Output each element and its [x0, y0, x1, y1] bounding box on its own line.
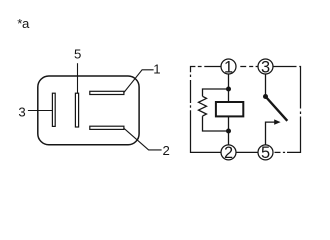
schematic boundary, bottom edge — [236, 151, 285, 153]
svg-text:5: 5 — [74, 47, 81, 62]
leader line for pin 1 — [124, 70, 154, 93]
pin slot 5 (center vertical terminal) — [75, 93, 78, 127]
pin slot 1 (upper horizontal terminal) — [90, 91, 124, 94]
svg-text:1: 1 — [153, 62, 160, 77]
switch pivot node — [263, 94, 268, 99]
schematic boundary, right edge — [287, 73, 301, 152]
terminal circle 5 — [258, 145, 273, 160]
schematic boundary (dash-dot chain), top edge — [191, 67, 301, 74]
leader line for pin 5 — [77, 63, 79, 93]
svg-text:5: 5 — [261, 144, 270, 162]
wire from terminal 5 up to contact arrow — [266, 122, 275, 145]
relay coil (rectangle) — [216, 102, 243, 116]
wire coil to bottom junction — [228, 116, 230, 131]
svg-text:2: 2 — [163, 143, 170, 158]
schematic boundary, left edge — [191, 75, 222, 153]
relay connector body outline — [38, 76, 139, 145]
wire top junction to coil — [228, 89, 230, 102]
wire resistor bottom to bottom junction — [203, 116, 229, 131]
wire top junction to resistor branch — [203, 89, 229, 96]
wire from terminal 3 down to switch pivot — [265, 74, 267, 97]
switch blade — [266, 97, 288, 121]
pin slot 2 (lower horizontal terminal) — [90, 126, 124, 129]
svg-text:*a: *a — [17, 16, 30, 31]
terminal circle 3 — [258, 59, 273, 74]
terminal circle 2 — [221, 145, 236, 160]
terminal circle 1 — [221, 59, 236, 74]
junction node (top) — [226, 87, 231, 92]
pin slot 3 (left vertical terminal) — [52, 93, 55, 126]
junction node (bottom) — [226, 129, 231, 134]
wire from terminal 1 down to top junction — [228, 74, 230, 89]
resistor (parallel with coil) — [199, 96, 207, 116]
svg-text:3: 3 — [18, 105, 25, 120]
wire bottom junction to terminal 2 — [228, 131, 230, 145]
svg-text:3: 3 — [261, 58, 270, 76]
contact arrow head — [274, 119, 280, 124]
svg-text:2: 2 — [224, 144, 233, 162]
leader line for pin 2 — [124, 128, 162, 150]
svg-text:1: 1 — [224, 58, 233, 76]
leader line for pin 3 — [28, 110, 53, 112]
